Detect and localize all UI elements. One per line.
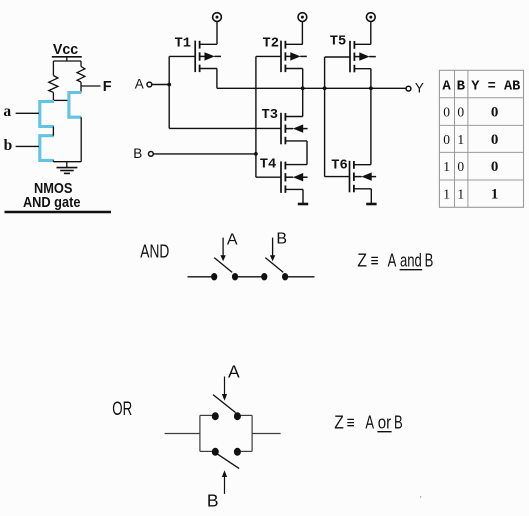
svg-text:OR: OR bbox=[112, 399, 132, 420]
svg-text:0: 0 bbox=[457, 105, 464, 120]
svg-text:0: 0 bbox=[443, 105, 450, 120]
svg-text:1: 1 bbox=[443, 159, 450, 174]
svg-text:B: B bbox=[207, 491, 219, 511]
svg-text:or: or bbox=[378, 413, 391, 433]
svg-text:0: 0 bbox=[491, 132, 499, 148]
svg-text:’: ’ bbox=[420, 495, 422, 506]
svg-text:1: 1 bbox=[491, 186, 499, 202]
svg-text:T4: T4 bbox=[260, 157, 277, 173]
svg-text:1: 1 bbox=[457, 186, 464, 201]
svg-text:A: A bbox=[228, 362, 240, 382]
svg-text:B: B bbox=[425, 251, 434, 271]
svg-text:AND: AND bbox=[140, 242, 169, 262]
svg-text:a: a bbox=[3, 103, 11, 120]
svg-text:B: B bbox=[394, 413, 403, 433]
svg-text:Vcc: Vcc bbox=[53, 42, 78, 58]
svg-text:T6: T6 bbox=[331, 157, 348, 173]
svg-text:A: A bbox=[442, 78, 451, 94]
svg-text:Y: Y bbox=[415, 81, 424, 96]
svg-text:B: B bbox=[457, 78, 466, 94]
svg-text:≡: ≡ bbox=[347, 413, 355, 433]
svg-text:≡: ≡ bbox=[371, 251, 379, 271]
svg-text:Y = AB: Y = AB bbox=[471, 78, 521, 94]
svg-text:1: 1 bbox=[443, 186, 450, 201]
svg-text:B: B bbox=[276, 231, 287, 248]
svg-text:0: 0 bbox=[457, 159, 464, 174]
svg-text:T1: T1 bbox=[175, 35, 192, 51]
svg-text:T2: T2 bbox=[263, 35, 280, 51]
svg-text:0: 0 bbox=[491, 105, 499, 121]
svg-text:Z: Z bbox=[357, 251, 367, 271]
svg-text:0: 0 bbox=[491, 159, 499, 175]
svg-text:T3: T3 bbox=[262, 107, 279, 123]
svg-text:A: A bbox=[388, 251, 397, 271]
svg-text:Z: Z bbox=[334, 413, 344, 433]
svg-text:A: A bbox=[135, 77, 144, 92]
svg-text:B: B bbox=[133, 146, 142, 161]
svg-text:0: 0 bbox=[443, 132, 450, 147]
svg-text:and: and bbox=[400, 251, 422, 271]
svg-text:T5: T5 bbox=[330, 33, 347, 49]
svg-text:b: b bbox=[4, 137, 13, 154]
svg-text:1: 1 bbox=[457, 132, 464, 147]
svg-text:A: A bbox=[227, 232, 238, 249]
svg-text:F: F bbox=[103, 79, 112, 95]
svg-text:A: A bbox=[365, 413, 374, 433]
svg-text:AND gate: AND gate bbox=[23, 194, 81, 211]
